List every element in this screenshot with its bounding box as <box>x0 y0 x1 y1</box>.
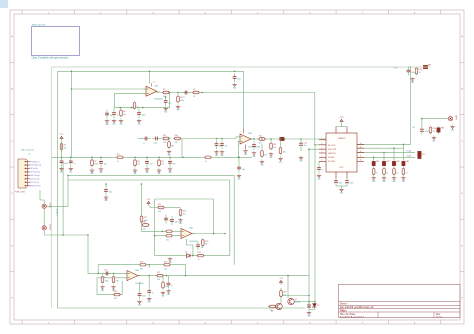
resistor R26 <box>113 291 122 300</box>
resistor R29 <box>280 289 287 298</box>
junction <box>162 231 164 233</box>
power flag VCC <box>60 134 64 141</box>
ground <box>157 168 162 175</box>
note frame (speaker drawing box) <box>32 24 80 60</box>
junction <box>314 301 316 303</box>
junction <box>105 183 107 185</box>
wire left vertical long <box>58 71 305 308</box>
svg-text:100n: 100n <box>411 72 415 74</box>
junction <box>148 264 150 266</box>
opamp U2B V- ground <box>245 145 247 150</box>
junction <box>149 71 151 73</box>
junction <box>280 138 282 140</box>
svg-text:10k: 10k <box>283 294 286 296</box>
svg-text:10n: 10n <box>225 146 228 148</box>
connector J1 DAC input <box>15 149 41 194</box>
svg-text:22k: 22k <box>143 229 146 231</box>
svg-text:1u: 1u <box>183 96 185 98</box>
svg-text:10n: 10n <box>173 164 176 166</box>
capacitor C5 <box>168 158 175 167</box>
ground <box>214 150 219 157</box>
ground <box>450 125 455 132</box>
wire DAC verticals down <box>308 149 310 308</box>
svg-text:R32: R32 <box>163 135 166 137</box>
opamp U2A V+ pin <box>152 82 156 87</box>
junction <box>154 235 156 237</box>
resistor R10 <box>258 136 267 145</box>
svg-text:100n: 100n <box>339 183 343 185</box>
ferrite bead FB6 <box>437 126 444 134</box>
svg-text:1n: 1n <box>386 172 388 174</box>
svg-text:R18: R18 <box>143 222 146 224</box>
svg-text:R10: R10 <box>259 136 262 138</box>
ground <box>161 291 166 298</box>
svg-text:220u: 220u <box>350 183 354 185</box>
svg-text:1n: 1n <box>406 172 408 174</box>
junction <box>216 138 218 140</box>
svg-text:1k: 1k <box>198 259 200 261</box>
junction <box>141 183 143 185</box>
svg-text:100k: 100k <box>94 164 98 166</box>
svg-text:D1: D1 <box>185 251 187 253</box>
svg-text:SD (Gain Sel): SD (Gain Sel) <box>30 179 40 181</box>
ground <box>90 168 95 175</box>
resistor R17 <box>140 215 147 224</box>
junction <box>97 273 99 275</box>
resistor R13 <box>415 67 422 76</box>
resistor R7 feedback <box>162 89 171 98</box>
junction <box>287 275 289 277</box>
junction <box>165 96 167 98</box>
svg-text:C26: C26 <box>104 269 107 271</box>
capacitor C4 <box>145 158 152 167</box>
junction <box>71 71 73 73</box>
junction <box>146 157 148 159</box>
svg-text:10u: 10u <box>304 145 307 147</box>
capacitor C23 <box>164 215 170 224</box>
ground <box>372 176 377 183</box>
ground <box>269 152 274 159</box>
svg-text:10k: 10k <box>164 268 167 270</box>
top right VCC filter: capacitor C21 <box>407 67 415 76</box>
jack J3 line in right <box>42 224 50 230</box>
wire jack J2 to rows <box>47 175 68 206</box>
svg-text:10n: 10n <box>110 115 113 117</box>
junction <box>166 275 168 277</box>
capacitor C19 <box>393 167 399 176</box>
svg-text:33k: 33k <box>140 268 143 270</box>
resistor R20 <box>202 238 209 247</box>
resistor R36 <box>261 149 267 158</box>
svg-text:22k: 22k <box>137 164 140 166</box>
resistor R3 <box>116 154 125 163</box>
ground <box>252 151 257 158</box>
junction <box>308 148 310 150</box>
junction <box>270 138 272 140</box>
resistor R22 <box>101 275 108 284</box>
ground <box>176 105 181 112</box>
svg-text:10k: 10k <box>183 213 186 215</box>
svg-text:3: 3 <box>322 148 323 150</box>
svg-text:10k: 10k <box>165 286 168 288</box>
capacitor C26 input ac coupling <box>103 269 112 279</box>
svg-text:10k: 10k <box>163 142 166 144</box>
svg-text:1n: 1n <box>396 172 398 174</box>
opamp U3A gain stage <box>179 227 198 243</box>
wire mid row left <box>51 156 252 158</box>
net label OutB <box>406 155 412 158</box>
resistor R4 <box>134 158 140 167</box>
capacitor C15 <box>334 177 342 186</box>
capacitor C10 <box>182 91 191 99</box>
capacitor C13 electrolytic <box>299 140 307 149</box>
capacitor C30 <box>167 280 173 289</box>
svg-text:100n: 100n <box>237 79 241 81</box>
svg-text:FB6: FB6 <box>441 127 444 129</box>
capacitor C20 <box>402 167 408 176</box>
resistor R30 <box>268 305 277 312</box>
svg-text:FB4: FB4 <box>406 161 409 163</box>
junction <box>142 107 144 109</box>
ground <box>392 176 397 183</box>
svg-text:47k: 47k <box>161 164 164 166</box>
resistor R11 <box>270 142 277 151</box>
svg-text:100n: 100n <box>154 142 158 144</box>
svg-text:470u: 470u <box>425 131 429 133</box>
wire row join <box>229 234 231 256</box>
ground <box>432 136 437 143</box>
capacitor C33 <box>105 110 112 119</box>
wire U2B -in chain <box>182 137 240 158</box>
ground <box>59 167 64 174</box>
svg-text:FB3: FB3 <box>396 161 399 163</box>
capacitor C18 <box>383 167 389 176</box>
junction <box>185 275 187 277</box>
junction <box>158 157 160 159</box>
opamp U2A V+ riser <box>148 71 150 83</box>
svg-text:R27: R27 <box>157 272 160 274</box>
wire right vertical VCC drop <box>410 67 412 144</box>
junction <box>238 157 240 159</box>
svg-text:4k7: 4k7 <box>205 243 208 245</box>
power flag VCC U3 <box>147 199 151 206</box>
resistor R35 <box>204 156 213 163</box>
junction <box>224 233 226 235</box>
ground <box>278 157 283 164</box>
resistor R18 <box>141 222 150 231</box>
ground <box>339 188 344 195</box>
svg-text:J1: J1 <box>28 153 30 155</box>
capacitor C36 <box>215 140 222 149</box>
power flag +12V transistor <box>279 278 284 285</box>
junction <box>62 234 64 236</box>
ground <box>111 285 116 292</box>
net label +12V <box>393 67 398 69</box>
capacitor C6 <box>104 186 112 195</box>
junction <box>192 255 194 257</box>
svg-text:100n: 100n <box>242 169 246 171</box>
wire opamp U2 output chain <box>156 93 315 145</box>
svg-text:1k: 1k <box>137 106 139 108</box>
svg-text:10k: 10k <box>158 211 161 213</box>
svg-text:LINE L: LINE L <box>48 203 50 209</box>
svg-text:1k: 1k <box>117 161 119 163</box>
transistor Q2 <box>271 303 282 312</box>
wire jack riser <box>62 161 64 235</box>
svg-text:10n: 10n <box>104 164 107 166</box>
svg-text:4n7: 4n7 <box>219 146 222 148</box>
svg-text:R26: R26 <box>114 291 117 293</box>
svg-text:D2: D2 <box>317 305 319 307</box>
svg-text:FB1: FB1 <box>376 161 379 163</box>
wire opamp U4 feedback top <box>98 265 160 274</box>
junction <box>253 138 255 140</box>
resistor R14 <box>429 126 436 135</box>
ground <box>260 160 265 167</box>
svg-text:MCP6002: MCP6002 <box>249 147 257 149</box>
capacitor C11 <box>252 141 260 150</box>
ferrite bead FB3 <box>392 160 399 168</box>
svg-text:OutB: OutB <box>406 155 412 158</box>
wire opamp U4 output <box>138 275 309 277</box>
svg-text:12: 12 <box>360 151 362 153</box>
svg-text:DAC Connector: DAC Connector <box>21 149 35 152</box>
svg-text:10: 10 <box>360 160 362 162</box>
svg-text:KiCad E.D.A. kicad 8.0.4: KiCad E.D.A. kicad 8.0.4 <box>340 315 365 318</box>
capacitor C29 <box>147 287 153 296</box>
wire VCC rail top (faint) <box>51 67 410 308</box>
svg-text:FB2: FB2 <box>386 161 389 163</box>
junction <box>280 295 282 297</box>
svg-text:10n: 10n <box>201 247 204 249</box>
opamp U4A output driver <box>125 269 144 285</box>
svg-text:2N3904: 2N3904 <box>295 302 301 304</box>
junction <box>70 157 72 159</box>
svg-text:10k: 10k <box>283 151 286 153</box>
svg-text:AUDIO_L: AUDIO_L <box>56 209 59 216</box>
opamp U2B V+ stub <box>243 128 245 133</box>
junction <box>182 157 184 159</box>
wire DAC output row 1 <box>357 143 411 145</box>
capacitor C17 <box>372 167 378 176</box>
resistor R23 <box>112 275 118 284</box>
svg-text:10: 10 <box>419 72 421 74</box>
svg-text:100n: 100n <box>142 115 146 117</box>
ground <box>145 167 150 174</box>
wire DAC output row 3 <box>357 151 415 153</box>
resistor R33 <box>168 140 174 149</box>
wire opamp U3 box left <box>154 199 156 256</box>
junction <box>148 275 150 277</box>
svg-text:R25: R25 <box>164 261 167 263</box>
wire opamp U3 output <box>192 233 225 235</box>
junction <box>393 147 395 149</box>
svg-text:100n: 100n <box>109 192 113 194</box>
svg-text:1k: 1k <box>205 161 207 163</box>
resistor R32 <box>162 135 171 144</box>
wire headphone feed <box>422 118 448 120</box>
svg-text:11: 11 <box>360 156 362 158</box>
wire transistor cluster <box>280 288 282 304</box>
svg-text:6: 6 <box>322 160 323 162</box>
wire opamp U4 -in loop <box>97 278 127 295</box>
svg-text:5: 5 <box>322 156 323 158</box>
svg-text:10k: 10k <box>264 154 267 156</box>
resistor R38 <box>165 234 174 241</box>
capacitor C34 <box>142 137 151 145</box>
svg-text:33k: 33k <box>171 145 174 147</box>
svg-text:13: 13 <box>360 147 362 149</box>
svg-text:Sheet: /: Sheet: / <box>340 302 348 305</box>
ferrite bead FB2 <box>382 160 389 168</box>
junction <box>238 157 240 159</box>
junction <box>314 144 316 146</box>
capacitor C24 <box>170 216 178 225</box>
junction <box>168 138 170 140</box>
resistor R6 <box>120 109 126 118</box>
wire U3 V- drop <box>187 239 193 256</box>
resistor R16 <box>179 208 186 217</box>
junction <box>234 71 236 73</box>
capacitor C22 <box>420 126 428 135</box>
svg-text:1u: 1u <box>143 142 145 144</box>
svg-text:R24: R24 <box>140 261 143 263</box>
wire inner branch vertical <box>71 71 73 157</box>
resistor R2 <box>91 158 98 167</box>
svg-text:22k: 22k <box>273 147 276 149</box>
ground <box>232 83 237 90</box>
svg-text:TPA3118: TPA3118 <box>338 137 346 140</box>
ground <box>112 119 117 126</box>
svg-text:R15: R15 <box>158 204 161 206</box>
junction <box>134 157 136 159</box>
capacitor C2 <box>69 157 75 166</box>
svg-text:MCP6002: MCP6002 <box>155 99 163 101</box>
resistor R28 <box>162 281 168 290</box>
svg-text:1u: 1u <box>104 277 106 279</box>
svg-text:MCP6002: MCP6002 <box>190 241 198 243</box>
resistor R37 <box>165 230 174 237</box>
junction <box>213 233 215 235</box>
junction <box>100 157 102 159</box>
ground <box>382 176 387 183</box>
capacitor C9 <box>164 97 171 106</box>
junction <box>221 138 223 140</box>
svg-text:OutA: OutA <box>406 150 412 153</box>
resistor R12 snubber <box>418 151 426 158</box>
net label audio column <box>56 209 59 216</box>
junction <box>71 88 73 90</box>
svg-text:PWR CONN: PWR CONN <box>15 192 26 194</box>
junction <box>373 157 375 159</box>
junction <box>261 138 263 140</box>
svg-text:GAIN BSL: GAIN BSL <box>328 152 336 155</box>
wire jack chain <box>43 209 45 225</box>
svg-text:INL OUTL: INL OUTL <box>328 145 336 147</box>
svg-text:100k: 100k <box>105 280 109 282</box>
ground <box>104 195 109 202</box>
capacitor C37 <box>220 140 227 149</box>
svg-text:HDPH: HDPH <box>455 115 457 121</box>
capacitor C35 <box>152 137 161 145</box>
junction <box>113 273 115 275</box>
svg-text:14: 14 <box>360 143 362 145</box>
ground <box>178 218 183 225</box>
wire to opamp U4 input <box>88 235 127 273</box>
opamp U2A input buffer <box>144 84 163 100</box>
wire top VCC rail <box>58 71 244 128</box>
svg-text:BCLK (5V In): BCLK (5V In) <box>30 182 40 184</box>
svg-text:100k: 100k <box>180 100 184 102</box>
ground <box>220 150 225 157</box>
svg-text:4k7: 4k7 <box>259 143 262 145</box>
capacitor C8 <box>137 109 145 118</box>
svg-text:Title:: Title: <box>340 309 347 313</box>
ground <box>99 167 104 174</box>
junction <box>421 118 423 120</box>
capacitor C14 <box>317 164 323 173</box>
svg-text:10k: 10k <box>270 310 273 312</box>
svg-text:SD BSR: SD BSR <box>328 157 335 159</box>
svg-text:R34: R34 <box>175 135 178 137</box>
ground <box>105 119 110 126</box>
junction <box>169 157 171 159</box>
svg-text:R9: R9 <box>193 89 195 91</box>
wire mid row lower <box>68 180 230 252</box>
wire row 176 <box>68 175 234 264</box>
svg-text:22k: 22k <box>114 298 117 300</box>
junction <box>87 234 89 236</box>
svg-text:100: 100 <box>157 279 160 281</box>
ground <box>167 150 172 157</box>
resistor R8 <box>177 95 184 104</box>
title block <box>339 285 461 319</box>
capacitor C1 <box>60 157 68 166</box>
capacitor C25 <box>196 241 203 250</box>
svg-text:47k: 47k <box>116 280 119 282</box>
svg-text:V+: V+ <box>153 82 155 84</box>
wire opamp U3 inputs <box>142 184 182 231</box>
svg-text:1u: 1u <box>117 115 119 117</box>
ground <box>307 311 312 318</box>
junction <box>201 92 203 94</box>
junction <box>403 144 405 146</box>
svg-text:4: 4 <box>322 151 323 153</box>
headphone jack J4 <box>448 115 456 121</box>
junction <box>169 92 171 94</box>
ground <box>147 297 152 304</box>
sheet corner marker <box>0 0 8 8</box>
ground <box>317 174 322 181</box>
diode D1 <box>185 251 190 257</box>
ground <box>164 107 169 114</box>
svg-text:FLT GND: FLT GND <box>328 161 336 163</box>
junction <box>383 152 385 154</box>
ground <box>133 168 138 175</box>
junction <box>410 66 412 68</box>
wire DAC output row 2 <box>357 147 403 149</box>
ferrite bead FB7 <box>278 137 286 140</box>
ferrite bead FB1 <box>372 160 379 168</box>
resistor R39 <box>279 146 285 155</box>
wire opamp U2 feedback loop <box>115 93 170 108</box>
ground <box>168 167 173 174</box>
svg-text:10p: 10p <box>168 103 171 105</box>
svg-text:Class D amplifier with gain se: Class D amplifier with gain selection <box>32 57 69 60</box>
capacitor C16 <box>345 177 353 186</box>
net label OutA <box>406 150 412 153</box>
resistor R21 <box>196 252 205 261</box>
